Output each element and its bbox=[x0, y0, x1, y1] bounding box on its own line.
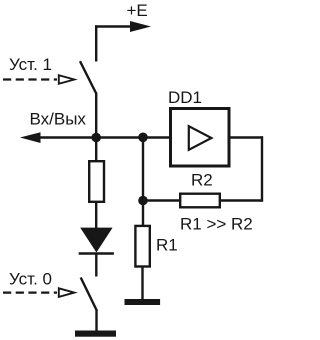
wire: DD1 output to feedback corner bbox=[230, 136, 264, 138]
node C junction dot bbox=[138, 196, 148, 206]
wire: node B down to node C and R1 top bbox=[142, 138, 144, 226]
wire: R1 bottom to ground bbox=[141, 268, 143, 300]
dashed control arrow for Уст. 1 bbox=[3, 75, 74, 84]
svg-text:Уст. 0: Уст. 0 bbox=[9, 270, 52, 289]
wire: horizontal input/output bus bbox=[38, 136, 170, 138]
wire: switch SA2 bottom to ground bbox=[95, 310, 97, 331]
wire: vertical from +E corner to switch SA1 top contact bbox=[95, 25, 97, 61]
diode VD1 (anode triangle, pointing down) bbox=[80, 228, 112, 253]
svg-text:+E: +E bbox=[127, 1, 148, 20]
op-amp buffer DD1 box bbox=[171, 109, 230, 167]
svg-text:Уст. 1: Уст. 1 bbox=[9, 55, 52, 74]
wire: +E horizontal feed bbox=[95, 25, 133, 27]
svg-text:R1: R1 bbox=[156, 236, 178, 255]
dashed control arrow for Уст. 0 bbox=[3, 288, 74, 297]
node B junction dot bbox=[138, 133, 148, 143]
resistor R2 body bbox=[180, 194, 220, 208]
resistor (left branch, unlabeled) body bbox=[89, 161, 104, 202]
svg-text:R1 >> R2: R1 >> R2 bbox=[180, 214, 253, 233]
ground bar (under R1) bbox=[125, 299, 161, 305]
wire: R2 right terminal to feedback line bbox=[221, 199, 262, 201]
switch SA2 blade (open) bbox=[81, 278, 97, 312]
wire: feedback vertical from DD1 output down to R2 row bbox=[261, 136, 263, 201]
wire: switch SA1 bottom to node A bbox=[95, 93, 97, 161]
svg-text:DD1: DD1 bbox=[168, 88, 202, 107]
wire: diode cathode to switch SA2 top contact bbox=[95, 254, 97, 277]
+E arrowhead bbox=[130, 21, 151, 32]
resistor R1 body bbox=[135, 226, 149, 267]
svg-text:R2: R2 bbox=[191, 171, 213, 190]
wire: resistor bottom to diode anode bbox=[95, 203, 97, 229]
switch SA1 blade (open) bbox=[80, 61, 96, 93]
diode VD1 cathode bar bbox=[79, 252, 114, 255]
wire: node C to R2 left terminal bbox=[143, 199, 180, 201]
svg-text:Вх/Вых: Вх/Вых bbox=[30, 110, 87, 129]
node A junction dot bbox=[91, 133, 101, 143]
Вх/Вых arrowhead pointing left bbox=[20, 132, 41, 143]
DD1 buffer triangle symbol bbox=[189, 126, 212, 150]
ground bar (under SA2) bbox=[75, 331, 116, 337]
